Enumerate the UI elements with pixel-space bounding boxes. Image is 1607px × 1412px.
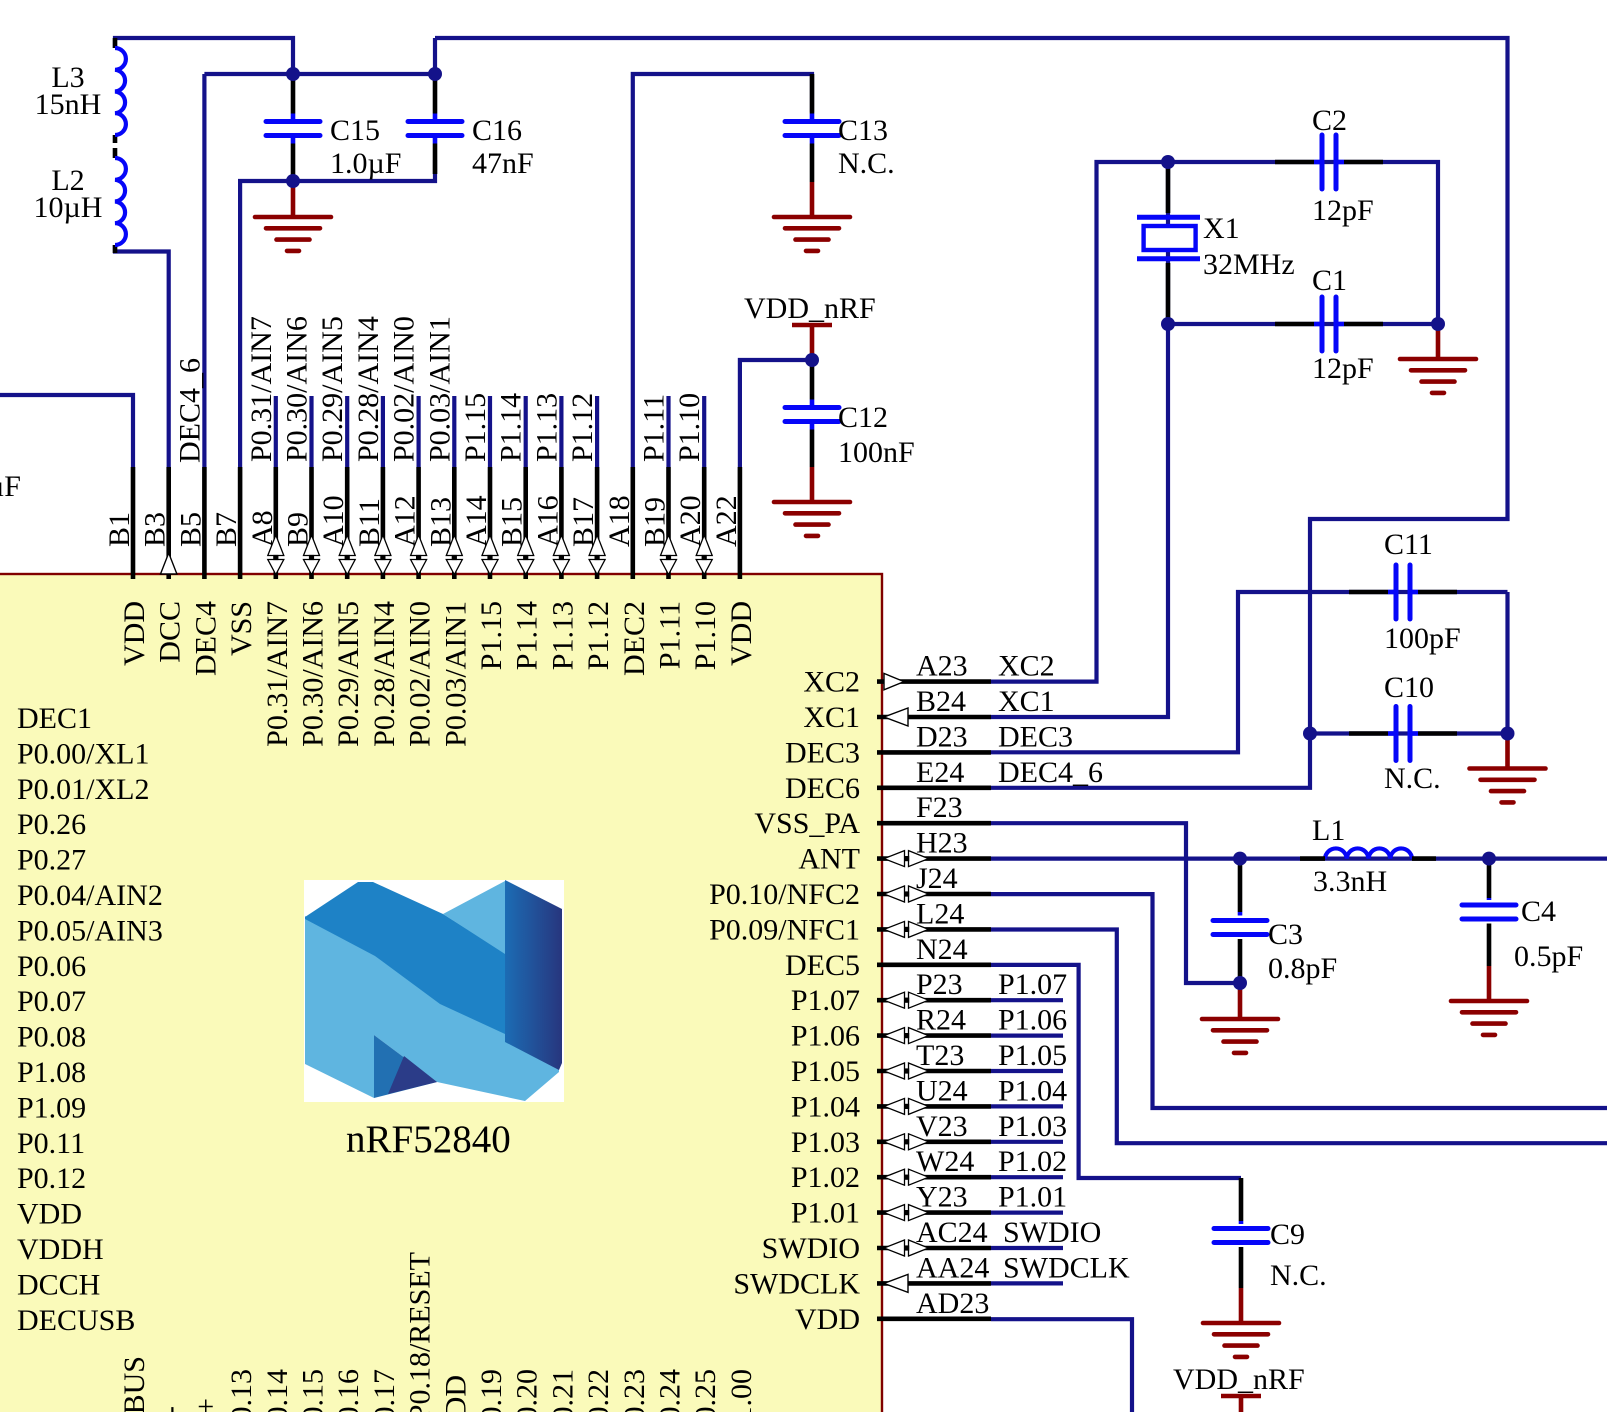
- inductor L3: [35, 38, 126, 143]
- wire XC2 A23 to crystal top: [991, 162, 1168, 682]
- svg-text:P0.06: P0.06: [17, 950, 86, 983]
- svg-text:P0.30/AIN6: P0.30/AIN6: [281, 316, 314, 462]
- svg-text:VDD_nRF: VDD_nRF: [744, 292, 876, 325]
- svg-text:P0.27: P0.27: [17, 844, 86, 877]
- svg-text:P1.02: P1.02: [998, 1145, 1067, 1178]
- junction C10 left: [1303, 727, 1317, 741]
- pin B5 (DEC4) top: [173, 358, 222, 676]
- svg-text:DEC2: DEC2: [618, 601, 651, 676]
- svg-text:DEC4_6: DEC4_6: [998, 756, 1103, 789]
- svg-text:SWDCLK: SWDCLK: [733, 1267, 860, 1300]
- svg-text:V23: V23: [916, 1110, 968, 1143]
- svg-text:L1: L1: [1312, 814, 1345, 847]
- svg-text:SWDIO: SWDIO: [762, 1232, 860, 1265]
- wire VDD A22 to VDD_nRF junction: [740, 360, 812, 467]
- svg-text:P0.31/AIN7: P0.31/AIN7: [261, 601, 294, 747]
- junction C3 bottom: [1233, 976, 1247, 990]
- svg-text:F23: F23: [916, 791, 963, 824]
- pin A10 (P0.29/AIN5) top: [316, 316, 365, 747]
- ground (C12): [774, 467, 850, 536]
- svg-text:C1: C1: [1312, 264, 1347, 297]
- svg-text:P1.10: P1.10: [673, 393, 706, 462]
- svg-text:DEC4: DEC4: [189, 601, 222, 676]
- svg-text:1.0µF: 1.0µF: [330, 147, 401, 180]
- svg-text:12pF: 12pF: [1312, 352, 1374, 385]
- pin A14 (P1.15) top: [459, 393, 508, 670]
- svg-text:P1.13: P1.13: [530, 393, 563, 462]
- svg-text:100pF: 100pF: [1384, 622, 1461, 655]
- svg-text:VDD: VDD: [725, 601, 758, 666]
- pin N24 (DEC5) right: [785, 933, 991, 982]
- svg-text:A22: A22: [710, 495, 743, 547]
- wire XC1 to C1: [1168, 322, 1438, 326]
- inductor L1 3.3nH: [1300, 814, 1436, 898]
- pin AA24 (SWDCLK) right: [733, 1251, 1130, 1300]
- svg-text:P0.19: P0.19: [475, 1369, 508, 1412]
- pin F23 (VSS_PA) right: [754, 791, 991, 840]
- svg-text:µF: µF: [0, 470, 21, 503]
- svg-text:47nF: 47nF: [472, 147, 534, 180]
- pin B19 (P1.11) top: [638, 394, 687, 669]
- svg-text:AA24: AA24: [916, 1251, 989, 1284]
- svg-text:C3: C3: [1268, 918, 1303, 951]
- svg-text:P0.25: P0.25: [689, 1369, 722, 1412]
- pin Y23 (P1.01) right: [791, 1181, 1067, 1230]
- svg-text:32MHz: 32MHz: [1203, 248, 1295, 281]
- capacitor C16 47nF: [408, 74, 534, 180]
- svg-text:nRF52840: nRF52840: [346, 1118, 511, 1161]
- svg-text:R24: R24: [916, 1004, 966, 1037]
- svg-text:P0.21: P0.21: [546, 1369, 579, 1412]
- power port VDD_nRF (top): [744, 292, 876, 360]
- svg-text:P0.00/XL1: P0.00/XL1: [17, 737, 150, 770]
- pin A23 (XC2) right: [803, 650, 1054, 699]
- svg-text:U24: U24: [916, 1074, 968, 1107]
- svg-text:P0.03/AIN1: P0.03/AIN1: [423, 316, 456, 462]
- svg-text:P1.01: P1.01: [998, 1181, 1067, 1214]
- inductor L2: [34, 148, 126, 253]
- pin H23 (ANT) right: [798, 827, 991, 876]
- ground (C4): [1451, 966, 1527, 1035]
- wire NFC1 L24 to right edge: [991, 930, 1607, 1144]
- svg-text:P1.13: P1.13: [546, 601, 579, 670]
- svg-text:P1.15: P1.15: [459, 393, 492, 462]
- svg-text:0.8pF: 0.8pF: [1268, 952, 1337, 985]
- pin D23 (DEC3) right: [785, 720, 1073, 769]
- svg-text:J24: J24: [916, 862, 958, 895]
- pin B11 (P0.28/AIN4) top: [352, 316, 401, 747]
- cut-off capacitor value at left edge: [0, 470, 21, 503]
- svg-text:N.C.: N.C.: [1270, 1259, 1327, 1292]
- svg-text:VDD: VDD: [795, 1303, 860, 1336]
- ground (C9): [1203, 1288, 1279, 1357]
- svg-text:XC2: XC2: [998, 650, 1055, 683]
- svg-text:P0.31/AIN7: P0.31/AIN7: [245, 316, 278, 462]
- pin B3 (DCC) top: [139, 467, 187, 663]
- svg-text:W24: W24: [916, 1145, 974, 1178]
- pin V23 (P1.03) right: [791, 1110, 1067, 1159]
- wire net stub AA24: [991, 1281, 1063, 1285]
- svg-text:P1.04: P1.04: [791, 1090, 860, 1123]
- svg-text:H23: H23: [916, 827, 968, 860]
- wire VSS_PA F23 to C3 bottom: [991, 823, 1240, 983]
- svg-text:P0.01/XL2: P0.01/XL2: [17, 773, 150, 806]
- svg-text:P1.05: P1.05: [998, 1039, 1067, 1072]
- svg-text:P0.14: P0.14: [261, 1369, 294, 1412]
- wire DEC5 N24 to C9: [991, 965, 1241, 1178]
- ground (C15/C16/VSS): [255, 182, 331, 251]
- svg-text:N24: N24: [916, 933, 968, 966]
- svg-text:P0.05/AIN3: P0.05/AIN3: [17, 914, 163, 947]
- svg-text:P0.16: P0.16: [332, 1369, 365, 1412]
- junction XC2/X1 top: [1161, 155, 1175, 169]
- svg-text:SWDIO: SWDIO: [1003, 1216, 1101, 1249]
- svg-text:P1.12: P1.12: [566, 393, 599, 462]
- ground (C1/C2): [1400, 324, 1476, 393]
- capacitor C2 12pF: [1275, 104, 1383, 227]
- svg-text:C16: C16: [472, 114, 522, 147]
- svg-text:B5: B5: [174, 512, 207, 547]
- pin B17 (P1.12) top: [566, 393, 615, 670]
- svg-text:0.5pF: 0.5pF: [1514, 940, 1583, 973]
- Nordic Semiconductor logo: [304, 880, 564, 1102]
- svg-text:P0.02/AIN0: P0.02/AIN0: [388, 316, 421, 462]
- svg-text:P1.01: P1.01: [791, 1197, 860, 1230]
- svg-text:SWDCLK: SWDCLK: [1003, 1251, 1130, 1284]
- wire net stub AC24: [991, 1246, 1063, 1250]
- wire net stub R24: [991, 1033, 1063, 1037]
- svg-text:D23: D23: [916, 720, 968, 753]
- svg-text:DCCH: DCCH: [17, 1268, 100, 1301]
- pin A18 (DEC2) top: [603, 467, 651, 676]
- pin A20 (P1.10) top: [673, 393, 722, 670]
- svg-text:B1: B1: [103, 512, 136, 547]
- power port VDD_nRF (bottom): [1173, 1363, 1305, 1412]
- pin B24 (XC1) right: [803, 685, 1054, 734]
- wire DEC2 A18 to C13: [633, 74, 812, 467]
- svg-text:VDD: VDD: [118, 601, 151, 666]
- svg-text:10µH: 10µH: [34, 191, 103, 224]
- svg-text:P1.11: P1.11: [654, 601, 687, 669]
- wire net stub U24: [991, 1104, 1063, 1108]
- pin L24 (P0.09/NFC1) right: [709, 897, 991, 946]
- svg-text:C2: C2: [1312, 104, 1347, 137]
- wire DEC3 D23 to C11: [991, 592, 1508, 752]
- junction C10 right: [1501, 727, 1515, 741]
- svg-text:AD23: AD23: [916, 1287, 989, 1320]
- svg-text:P0.29/AIN5: P0.29/AIN5: [316, 316, 349, 462]
- wire C11 right drop: [1505, 592, 1509, 734]
- svg-text:DEC1: DEC1: [17, 702, 92, 735]
- junction C4 top: [1482, 852, 1496, 866]
- svg-text:XC1: XC1: [803, 701, 860, 734]
- svg-text:N.C.: N.C.: [838, 147, 895, 180]
- svg-text:D+: D+: [189, 1398, 222, 1412]
- svg-text:C10: C10: [1384, 671, 1434, 704]
- wire VDD AD23 to bottom edge: [991, 1319, 1132, 1412]
- svg-text:P1.14: P1.14: [511, 601, 544, 670]
- svg-text:B7: B7: [210, 512, 243, 547]
- svg-text:AC24: AC24: [916, 1216, 988, 1249]
- svg-text:3.3nH: 3.3nH: [1313, 865, 1387, 898]
- wire DCC B3 to L2: [115, 245, 169, 467]
- svg-text:P1.15: P1.15: [475, 601, 508, 670]
- svg-text:P0.30/AIN6: P0.30/AIN6: [297, 601, 330, 747]
- wire net stub T23: [991, 1069, 1063, 1073]
- ground (C10): [1470, 734, 1546, 803]
- svg-text:P0.13: P0.13: [225, 1369, 258, 1412]
- junction XC1/X1 bottom: [1161, 317, 1175, 331]
- capacitor C13 N.C.: [785, 74, 895, 182]
- svg-text:N.C.: N.C.: [1384, 762, 1441, 795]
- svg-text:P0.24: P0.24: [654, 1369, 687, 1412]
- svg-text:C9: C9: [1270, 1218, 1305, 1251]
- svg-text:P1.04: P1.04: [998, 1074, 1067, 1107]
- svg-text:P0.18/RESET: P0.18/RESET: [404, 1252, 437, 1412]
- capacitor C12 100nF: [785, 360, 915, 469]
- junction C15 top: [286, 67, 300, 81]
- wire L3 top to C15 junction: [115, 38, 293, 74]
- svg-text:B3: B3: [139, 512, 172, 547]
- svg-text:P1.03: P1.03: [791, 1126, 860, 1159]
- svg-text:P1.05: P1.05: [791, 1055, 860, 1088]
- svg-text:P0.15: P0.15: [297, 1369, 330, 1412]
- pin P23 (P1.07) right: [791, 968, 1067, 1017]
- ground (C3/VSS_PA): [1202, 984, 1278, 1053]
- svg-text:X1: X1: [1203, 212, 1240, 245]
- svg-text:P1.07: P1.07: [998, 968, 1067, 1001]
- wire VSS B7 to C15/C16 bottoms: [240, 160, 435, 467]
- svg-text:DEC5: DEC5: [785, 949, 860, 982]
- svg-text:VDD: VDD: [17, 1198, 82, 1231]
- svg-text:P1.14: P1.14: [495, 393, 528, 462]
- svg-text:P1.08: P1.08: [17, 1056, 86, 1089]
- svg-text:100nF: 100nF: [838, 436, 915, 469]
- svg-text:T23: T23: [916, 1039, 964, 1072]
- svg-text:P0.28/AIN4: P0.28/AIN4: [368, 601, 401, 747]
- svg-text:P1.10: P1.10: [689, 601, 722, 670]
- svg-text:P0.10/NFC2: P0.10/NFC2: [709, 878, 860, 911]
- svg-text:P0.22: P0.22: [582, 1369, 615, 1412]
- pin U24 (P1.04) right: [791, 1074, 1067, 1123]
- svg-text:B24: B24: [916, 685, 966, 718]
- svg-text:C4: C4: [1521, 895, 1556, 928]
- junction VDD_nRF/C12: [805, 353, 819, 367]
- pin A16 (P1.13) top: [530, 393, 579, 670]
- pin A8 (P0.31/AIN7) top: [245, 316, 294, 747]
- svg-text:C12: C12: [838, 401, 888, 434]
- pin J24 (P0.10/NFC2) right: [709, 862, 991, 911]
- pin T23 (P1.05) right: [791, 1039, 1067, 1088]
- pin B1 (VDD) top: [103, 467, 151, 666]
- svg-text:XC1: XC1: [998, 685, 1055, 718]
- svg-text:P0.03/AIN1: P0.03/AIN1: [439, 601, 472, 747]
- wire C10 row: [1310, 731, 1508, 735]
- svg-text:P1.00: P1.00: [725, 1369, 758, 1412]
- capacitor C4 0.5pF: [1462, 859, 1583, 973]
- capacitor C15 1.0uF: [266, 74, 401, 181]
- pin B7 (VSS) top: [210, 467, 258, 656]
- wire VDD B1 to left edge: [0, 395, 133, 467]
- svg-text:P1.06: P1.06: [791, 1020, 860, 1053]
- svg-text:Y23: Y23: [916, 1181, 968, 1214]
- pin W24 (P1.02) right: [791, 1145, 1067, 1194]
- junction C15 bottom: [286, 174, 300, 188]
- svg-text:P0.11: P0.11: [17, 1127, 85, 1160]
- svg-text:P0.07: P0.07: [17, 985, 86, 1018]
- bottom pin name labels: [118, 1252, 758, 1412]
- svg-text:P0.29/AIN5: P0.29/AIN5: [332, 601, 365, 747]
- wire NFC2 J24 to right edge: [991, 894, 1607, 1108]
- svg-text:D-: D-: [154, 1406, 187, 1412]
- capacitor C10 N.C.: [1349, 671, 1457, 795]
- pin B15 (P1.14) top: [495, 393, 544, 670]
- wire net stub P23: [991, 998, 1063, 1002]
- svg-text:VDDH: VDDH: [17, 1233, 104, 1266]
- pin E24 (DEC6) right: [785, 756, 1103, 805]
- junction C3 top: [1233, 852, 1247, 866]
- svg-text:VBUS: VBUS: [118, 1356, 151, 1412]
- wire XC1 B24 vertical: [991, 324, 1168, 717]
- IC U1 nRF52840 body: [0, 574, 882, 1412]
- svg-text:P1.09: P1.09: [17, 1091, 86, 1124]
- wire net stub Y23: [991, 1210, 1063, 1214]
- junction C16 top: [428, 67, 442, 81]
- svg-text:P0.12: P0.12: [17, 1162, 86, 1195]
- svg-text:P0.17: P0.17: [368, 1369, 401, 1412]
- left pin name labels: [17, 702, 163, 1337]
- svg-text:VSS_PA: VSS_PA: [754, 807, 860, 840]
- pin AD23 (VDD) right: [795, 1287, 991, 1336]
- capacitor C11 100pF: [1349, 528, 1461, 655]
- wire DEC4_6 top rail to E24: [435, 38, 1508, 788]
- svg-text:A23: A23: [916, 650, 968, 683]
- svg-text:C13: C13: [838, 114, 888, 147]
- svg-text:C11: C11: [1384, 528, 1433, 561]
- svg-text:P1.07: P1.07: [791, 984, 860, 1017]
- wire XC2 to C2: [1168, 162, 1438, 324]
- svg-text:P1.06: P1.06: [998, 1004, 1067, 1037]
- svg-text:P1.02: P1.02: [791, 1161, 860, 1194]
- pin A22 (VDD) top: [710, 467, 758, 666]
- capacitor C3 0.8pF: [1213, 859, 1337, 985]
- svg-text:VSS: VSS: [225, 601, 258, 656]
- svg-text:P0.04/AIN2: P0.04/AIN2: [17, 879, 163, 912]
- junction C1/C2 right: [1431, 317, 1445, 331]
- svg-text:DECUSB: DECUSB: [17, 1304, 135, 1337]
- svg-text:DEC6: DEC6: [785, 772, 860, 805]
- svg-text:P1.12: P1.12: [582, 601, 615, 670]
- capacitor C9 N.C.: [1214, 1178, 1327, 1292]
- svg-text:XC2: XC2: [803, 666, 860, 699]
- pin B13 (P0.03/AIN1) top: [423, 316, 472, 747]
- svg-text:P23: P23: [916, 968, 963, 1001]
- svg-text:P0.23: P0.23: [618, 1369, 651, 1412]
- pin AC24 (SWDIO) right: [762, 1216, 1102, 1265]
- svg-text:DEC3: DEC3: [998, 720, 1073, 753]
- svg-text:DCC: DCC: [154, 601, 187, 663]
- svg-text:DEC4_6: DEC4_6: [173, 358, 206, 463]
- svg-text:L24: L24: [916, 897, 964, 930]
- pin R24 (P1.06) right: [791, 1004, 1067, 1053]
- crystal X1 32MHz: [1137, 168, 1295, 320]
- pin B9 (P0.30/AIN6) top: [281, 316, 330, 747]
- svg-text:ANT: ANT: [798, 843, 860, 876]
- ground (C13): [774, 182, 850, 251]
- svg-text:C15: C15: [330, 114, 380, 147]
- part name nRF52840: [346, 1118, 511, 1161]
- svg-text:P0.28/AIN4: P0.28/AIN4: [352, 316, 385, 462]
- svg-text:E24: E24: [916, 756, 964, 789]
- wire crystal branch vertical: [1166, 162, 1170, 324]
- svg-text:P0.02/AIN0: P0.02/AIN0: [404, 601, 437, 747]
- svg-text:P0.26: P0.26: [17, 808, 86, 841]
- wire net stub V23: [991, 1140, 1063, 1144]
- svg-text:P0.09/NFC1: P0.09/NFC1: [709, 913, 860, 946]
- svg-text:A18: A18: [603, 495, 636, 547]
- svg-text:P0.20: P0.20: [511, 1369, 544, 1412]
- wire net stub W24: [991, 1175, 1063, 1179]
- svg-text:15nH: 15nH: [35, 88, 102, 121]
- svg-text:P1.03: P1.03: [998, 1110, 1067, 1143]
- svg-text:DEC3: DEC3: [785, 736, 860, 769]
- wire ANT H23 row to right edge: [991, 856, 1607, 860]
- svg-text:VDD: VDD: [439, 1375, 472, 1412]
- wire DEC4 B5 vertical: [202, 74, 206, 467]
- pin A12 (P0.02/AIN0) top: [388, 316, 437, 747]
- wire DEC4_6 rail y74: [204, 72, 435, 76]
- svg-text:P0.08: P0.08: [17, 1021, 86, 1054]
- svg-text:VDD_nRF: VDD_nRF: [1173, 1363, 1305, 1396]
- svg-text:12pF: 12pF: [1312, 194, 1374, 227]
- svg-text:P1.11: P1.11: [638, 394, 671, 462]
- wire C16 to top rail drop: [433, 38, 437, 74]
- capacitor C1 12pF: [1275, 264, 1383, 385]
